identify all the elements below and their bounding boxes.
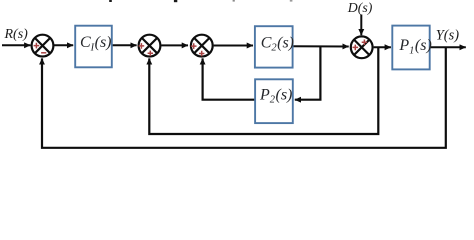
svg-text:P2(s): P2(s) (259, 86, 292, 105)
svg-text:R(s): R(s) (4, 27, 29, 42)
svg-text:CI(s): CI(s) (80, 34, 112, 53)
svg-text:C2(s): C2(s) (261, 34, 294, 53)
svg-text:P1(s): P1(s) (398, 37, 431, 56)
svg-text:Y(s): Y(s) (436, 27, 459, 43)
svg-text:D(s): D(s) (347, 0, 373, 16)
